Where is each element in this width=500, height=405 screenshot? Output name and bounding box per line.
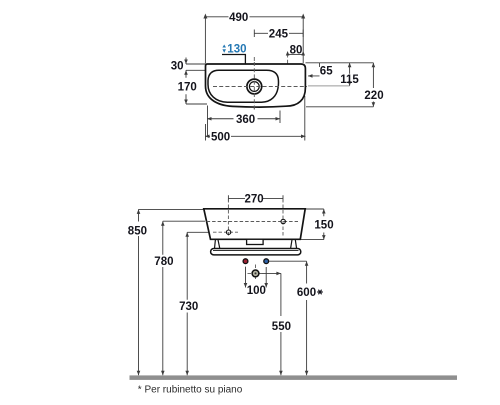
svg-text:30: 30 (171, 61, 184, 73)
svg-text:600: 600 (297, 287, 316, 299)
svg-text:730: 730 (179, 301, 198, 313)
svg-text:170: 170 (178, 81, 197, 93)
svg-text:100: 100 (247, 285, 266, 297)
svg-text:65: 65 (320, 65, 333, 77)
svg-text:245: 245 (269, 28, 289, 40)
svg-text:360: 360 (236, 114, 255, 126)
svg-text:490: 490 (229, 12, 248, 24)
svg-text:780: 780 (154, 256, 173, 268)
svg-text:* Per rubinetto su piano: * Per rubinetto su piano (138, 384, 243, 395)
svg-text:80: 80 (290, 45, 303, 57)
svg-text:115: 115 (340, 74, 359, 86)
svg-text:220: 220 (364, 90, 383, 102)
svg-text:850: 850 (128, 226, 147, 238)
svg-text:130: 130 (227, 44, 246, 56)
svg-text:270: 270 (245, 194, 264, 206)
svg-text:500: 500 (211, 132, 230, 144)
svg-text:550: 550 (272, 321, 291, 333)
svg-text:150: 150 (314, 220, 333, 232)
